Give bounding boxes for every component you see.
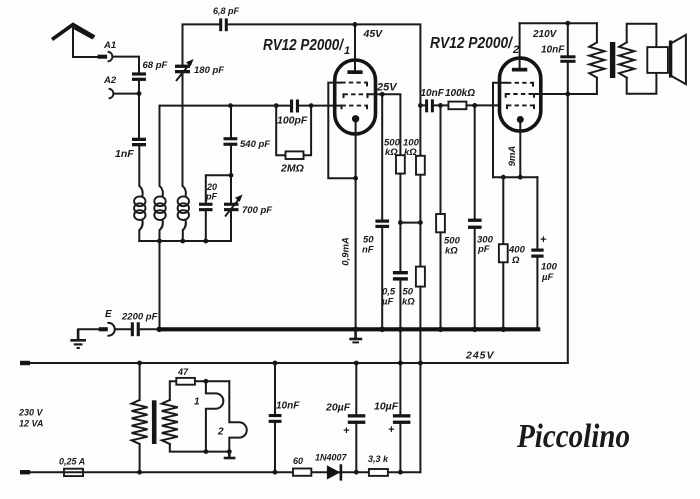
svg-text:RV12 P2000/: RV12 P2000/	[430, 35, 513, 52]
svg-text:kΩ: kΩ	[385, 147, 398, 158]
capacitor 0.5uF	[381, 271, 408, 308]
node 540pF bottom	[229, 173, 234, 178]
terminal mains bottom	[20, 470, 30, 474]
svg-text:20: 20	[206, 182, 217, 192]
svg-text:230 V: 230 V	[18, 408, 44, 418]
resistor 3.3k	[368, 454, 389, 476]
resistor 100k anode load	[403, 105, 425, 266]
node 10nF left	[418, 103, 423, 108]
svg-text:100pF: 100pF	[277, 115, 308, 127]
wire 180pF to L3	[183, 73, 186, 196]
wire A1 to 68pF	[113, 57, 139, 73]
wire 20pF branch	[206, 175, 231, 241]
svg-text:RV12 P2000/: RV12 P2000/	[263, 37, 344, 54]
speaker LS1	[647, 35, 686, 84]
node 10nF bottom	[273, 470, 278, 475]
tube V1 grid g3	[341, 82, 367, 84]
svg-text:nF: nF	[362, 245, 374, 256]
capacitor 6.8pF	[213, 6, 240, 31]
tube V2 grid g2	[506, 93, 534, 95]
transformer T2 core	[152, 400, 157, 444]
resistor 2M grid leak	[276, 106, 311, 175]
svg-text:68 pF: 68 pF	[143, 60, 168, 71]
svg-text:pF: pF	[477, 244, 490, 255]
heater filament 1	[194, 381, 223, 451]
svg-text:25V: 25V	[376, 82, 398, 94]
node B+ junction	[418, 361, 423, 366]
node heater bottom	[204, 449, 209, 454]
transformer T1 core	[610, 42, 615, 78]
capacitor 10nF coupling	[421, 88, 445, 112]
tube V2 grid g3	[507, 82, 533, 84]
node jumper left	[398, 220, 403, 225]
svg-text:3,3 k: 3,3 k	[368, 454, 389, 464]
svg-text:0,9mA: 0,9mA	[340, 237, 351, 266]
wire L2 bottom	[160, 220, 163, 241]
node rail start	[157, 327, 163, 333]
svg-text:100: 100	[541, 262, 558, 273]
svg-text:2: 2	[217, 427, 224, 438]
node 20pF bottom	[203, 239, 208, 244]
svg-text:1: 1	[194, 397, 200, 408]
tube V2 anode	[512, 23, 527, 71]
svg-text:100kΩ: 100kΩ	[445, 88, 475, 99]
tube V1 grid g2	[344, 93, 368, 95]
capacitor 100pF grid	[277, 100, 308, 127]
tube V1 RV12 P2000/1 envelope	[335, 60, 376, 134]
svg-text:kΩ: kΩ	[402, 297, 415, 308]
svg-text:A2: A2	[103, 75, 117, 86]
svg-text:µF: µF	[381, 297, 393, 308]
svg-text:2MΩ: 2MΩ	[280, 163, 304, 175]
svg-text:10nF: 10nF	[276, 401, 300, 412]
wire A2 to junction	[114, 93, 139, 95]
svg-text:µF: µF	[541, 272, 553, 283]
svg-text:A1: A1	[103, 40, 116, 51]
svg-text:E: E	[105, 309, 112, 320]
node cathode junction	[518, 175, 523, 180]
wire B+ riser	[567, 94, 569, 363]
resistor 50k	[402, 267, 425, 308]
node heater top	[204, 379, 209, 384]
wire antenna lead	[73, 26, 98, 57]
capacitor 10nF anode bypass	[541, 23, 576, 94]
svg-text:10µF: 10µF	[374, 401, 399, 413]
wire heater top	[195, 380, 229, 382]
node mains transformer top	[137, 361, 142, 366]
wire grid bus top	[160, 105, 291, 107]
capacitor 20uF	[325, 363, 365, 472]
node 20uF bottom	[354, 470, 359, 475]
svg-text:210V: 210V	[532, 29, 558, 40]
wire 10nF to 100k	[420, 104, 448, 106]
wire 25V screen node	[368, 94, 401, 155]
wire V2 cathode bus	[493, 176, 537, 178]
resistor 400ohm cathode bias	[499, 177, 526, 327]
tube V2 cathode	[517, 116, 524, 177]
wire 0.5uF to ground rail	[399, 281, 401, 363]
node rail 300pF	[472, 327, 478, 333]
wire 6.8pF to 45V node	[228, 23, 355, 25]
resistor 60	[293, 456, 311, 476]
wire L2 top lead	[160, 106, 163, 197]
wire 500k to 0.5uF	[399, 174, 401, 271]
ground earth symbol E	[70, 329, 86, 348]
terminal mains top	[20, 361, 30, 365]
node V1 cathode junction	[353, 176, 358, 181]
wire 540pF upper	[230, 106, 232, 138]
trimmer capacitor 700pF	[224, 195, 272, 217]
node cathode bus 400ohm	[501, 175, 506, 180]
node grid bus left	[274, 103, 279, 108]
capacitor 50nF screen bypass	[362, 94, 389, 327]
svg-text:Ω: Ω	[511, 255, 520, 266]
transformer T2 secondary	[162, 381, 230, 451]
svg-text:1N4007: 1N4007	[315, 453, 348, 463]
node 10uF bottom	[398, 470, 403, 475]
node junction A2	[137, 91, 142, 96]
wire coil bus down	[159, 241, 161, 329]
ground heater	[224, 452, 236, 458]
wire V2 g3 down	[493, 83, 507, 177]
svg-text:20µF: 20µF	[325, 402, 351, 414]
tube V2 grid g1	[507, 104, 534, 106]
wire 50k down crossing rail	[419, 287, 421, 363]
svg-text:+: +	[343, 425, 350, 437]
svg-text:kΩ: kΩ	[445, 246, 458, 257]
svg-text:1: 1	[344, 45, 350, 57]
wire B+ riser from rectifier	[419, 363, 421, 472]
node rail 400ohm	[501, 327, 507, 333]
resistor 500k V2 grid leak	[436, 105, 460, 327]
node rail cathode V1	[353, 327, 359, 333]
svg-text:Piccolino: Piccolino	[516, 418, 630, 455]
node rail 0.5uF	[398, 327, 404, 333]
wire anode rail 210V	[520, 22, 597, 24]
wire L1 bottom	[139, 220, 142, 241]
node 100pF right	[309, 103, 314, 108]
heater filament 2	[217, 381, 247, 451]
svg-text:2: 2	[512, 44, 519, 56]
svg-text:+: +	[540, 234, 547, 246]
inductor L3 tuning coil	[178, 196, 189, 220]
svg-text:45V: 45V	[363, 28, 384, 40]
terminal A2 jack	[110, 89, 114, 98]
capacitor 100uF cathode bypass	[531, 177, 557, 329]
wire E to 2200pF	[115, 328, 131, 330]
inductor L1 antenna coil	[134, 196, 145, 220]
tube V1 cathode	[352, 115, 359, 328]
node 20uF top	[354, 361, 359, 366]
tube V2 grid hooks	[506, 83, 534, 108]
terminal E plug	[99, 323, 115, 336]
diode 1N4007	[315, 453, 348, 481]
svg-text:180 pF: 180 pF	[194, 65, 224, 76]
node heater 2 bottom	[227, 449, 232, 454]
wire 100k to V2 grid	[466, 104, 499, 106]
capacitor 2200pF	[121, 312, 158, 337]
wire V2 screen to B+	[534, 93, 597, 95]
node 25V junction	[380, 92, 385, 97]
wire coil bottom bus	[139, 240, 231, 242]
capacitor 20pF	[199, 182, 217, 211]
svg-text:0,25 A: 0,25 A	[59, 457, 85, 467]
node 300pF top	[472, 103, 477, 108]
node L2 bottom	[157, 239, 162, 244]
trimmer capacitor 180pF	[175, 59, 224, 81]
node L3 bottom	[180, 239, 185, 244]
tube V1 grid hooks	[342, 83, 368, 109]
wire 68pF to 1nF	[138, 81, 140, 138]
node jumper right	[418, 220, 423, 225]
wire 540pF to 700pF	[230, 146, 232, 203]
wire earth to E plug	[78, 328, 99, 330]
svg-text:245V: 245V	[465, 350, 495, 362]
antenna	[52, 25, 95, 40]
svg-text:9mA: 9mA	[507, 146, 518, 167]
resistor 47 heater dropper	[176, 367, 195, 385]
svg-text:400: 400	[508, 245, 526, 256]
capacitor 540pF	[224, 137, 271, 150]
capacitor 10uF	[374, 363, 410, 472]
wire top rail 6.8pF	[183, 24, 220, 64]
svg-text:6,8 pF: 6,8 pF	[213, 6, 240, 16]
svg-text:+: +	[388, 424, 395, 436]
ground rail	[159, 327, 538, 331]
transformer T1 secondary	[619, 24, 656, 94]
svg-text:540 pF: 540 pF	[240, 139, 270, 150]
wire 1nF to coil L1	[139, 146, 142, 196]
tube V1 grid g1	[342, 105, 368, 107]
wire 700pF bottom	[230, 211, 232, 241]
node 10nF mains top	[273, 361, 278, 366]
svg-text:10nF: 10nF	[421, 88, 445, 99]
svg-text:60: 60	[293, 456, 303, 466]
inductor L2 grid coil	[154, 196, 165, 220]
svg-text:pF: pF	[205, 192, 217, 202]
capacitor 68pF	[132, 60, 168, 81]
svg-text:47: 47	[177, 367, 189, 377]
node 540pF top	[228, 103, 233, 108]
svg-text:12 VA: 12 VA	[19, 419, 43, 429]
node 45V	[353, 22, 358, 27]
node transformer bottom	[137, 470, 142, 475]
resistor 500k screen feed	[384, 138, 405, 174]
wire jumper	[400, 222, 420, 224]
tube V1 anode	[347, 24, 362, 74]
wire mains bottom line	[29, 471, 420, 473]
node rail 500k	[438, 327, 444, 333]
svg-text:10nF: 10nF	[541, 45, 565, 56]
resistor 100k grid stopper	[445, 88, 475, 109]
capacitor 1nF	[115, 138, 146, 160]
wire L3 bottom	[183, 220, 186, 241]
capacitor 300pF	[468, 105, 494, 327]
svg-text:1nF: 1nF	[115, 148, 134, 160]
wire 45V rail to 10nF	[355, 24, 421, 105]
svg-text:2200 pF: 2200 pF	[121, 312, 158, 323]
capacitor 10nF mains	[269, 363, 301, 472]
node rail 50nF	[379, 327, 385, 333]
wire V1 g3 to cathode	[328, 83, 354, 179]
wire 100pF to grid	[299, 105, 341, 107]
wire mains top 245V line	[29, 362, 568, 364]
label 230V 12VA	[18, 408, 44, 429]
node 10uF top	[398, 361, 403, 366]
transformer T2 primary	[132, 363, 148, 472]
wire 2200pF to rail	[140, 328, 160, 330]
node screen rail junction	[565, 92, 570, 97]
node anode rail junction	[565, 21, 570, 26]
transformer T1 primary	[589, 23, 604, 94]
fuse 0.25A	[59, 457, 85, 477]
ground chassis below rail	[349, 331, 362, 342]
node 10nF right	[438, 103, 443, 108]
svg-text:kΩ: kΩ	[404, 147, 417, 158]
tube V2 RV12 P2000/2 envelope	[500, 58, 541, 131]
svg-text:700 pF: 700 pF	[242, 205, 272, 216]
terminal A1 plug	[98, 52, 113, 61]
